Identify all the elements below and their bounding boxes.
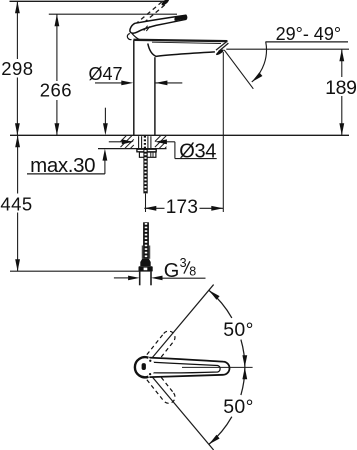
dimension 173 (spout projection) with arrows and label [144, 207, 164, 209]
hose collar taper [140, 259, 150, 267]
spout tip extension line to 173 dimension [222, 52, 224, 212]
swing angle arc with end arrowheads [209, 290, 232, 318]
mounting nut [139, 152, 156, 157]
lever raised position dashed edge 1 [138, 4, 166, 28]
arc centre-line arrowhead upper [242, 355, 247, 367]
svg-text:173: 173 [166, 197, 199, 218]
dimension 445 (hose length below deck) with arrows and label [17, 135, 19, 193]
stud centre line to 173 dimension [145, 193, 147, 212]
svg-text:max.30: max.30 [30, 154, 95, 177]
dimension max.30 (deck thickness) with arrows and label [104, 108, 106, 124]
faucet spout inner top line [152, 42, 221, 43]
shank tube wall left (inner) [141, 136, 143, 148]
pivot head dot lower [149, 373, 151, 375]
reference line top of lever (266 datum) [49, 13, 177, 15]
svg-text:3: 3 [180, 256, 187, 270]
shank tube wall right (outer) [150, 136, 152, 148]
countertop section hatching right of hole [155, 136, 161, 142]
cartridge dome right edge [132, 34, 139, 40]
pivot head slot marker [142, 363, 146, 370]
reference line top of raised lever (298 datum) [10, 0, 165, 2]
lever axis centre line [182, 366, 253, 368]
countertop bottom surface line [98, 148, 167, 150]
svg-text:266: 266 [40, 79, 72, 100]
mounting washer plate [137, 149, 156, 152]
dimension diameter 47 (body) with arrows and label [95, 82, 122, 84]
flexible hose threaded end [143, 222, 149, 258]
pivot head dot upper [149, 360, 151, 362]
svg-text:G: G [164, 260, 180, 282]
lever raised position (top view, dashed) upper [147, 329, 178, 363]
svg-text:29°- 49°: 29°- 49° [276, 24, 341, 44]
dimension diameter 34 (deck hole) with arrows, leader and label [109, 141, 122, 143]
svg-text:50°: 50° [223, 396, 254, 418]
faucet spout top edge [133, 40, 227, 41]
lever crease mark 2 [146, 26, 150, 31]
dimension 189 (spout height) with arrows and label [341, 49, 343, 77]
faucet spout underside curve [148, 44, 215, 57]
spout angle arc with arrowhead [252, 42, 267, 82]
hose tube right wall [150, 272, 152, 286]
svg-text:445: 445 [0, 194, 32, 215]
swing limit line lower 50 deg [150, 374, 214, 450]
lever raised position (top view, dashed) lower [147, 372, 178, 406]
svg-text:298: 298 [1, 58, 33, 79]
hose connection flange nut [139, 266, 153, 271]
lever raised position dashed edge 2 [135, 1, 163, 24]
aerator outlet at spout tip [215, 49, 224, 56]
shank tube wall right (inner) [147, 136, 149, 148]
lever handle (closed position) [130, 15, 187, 33]
thread size label G 3/8 with arrows [114, 277, 128, 279]
threaded stud in deck hole [144, 136, 146, 149]
29-49 degree label underline [265, 41, 348, 43]
faucet spout end face outer line [216, 41, 227, 50]
svg-text:Ø34: Ø34 [179, 140, 216, 162]
threaded mounting stud (upper) [143, 149, 147, 193]
dimension 266 (lever height) with arrows and label [56, 14, 58, 81]
top view lever body outline [149, 358, 229, 378]
svg-text:50°: 50° [223, 319, 254, 341]
spout angle leader line [224, 50, 253, 89]
countertop section hatching left of hole [121, 136, 127, 142]
faucet body column left edge [133, 40, 135, 135]
lever crease mark 1 [144, 26, 148, 31]
shank tube wall left (outer) [138, 136, 140, 148]
dimension 298 (overall height) with arrows and label [16, 1, 18, 59]
hose tube left wall [139, 272, 141, 286]
swing limit line upper 50 deg [150, 285, 214, 361]
arc centre-line arrowhead lower [242, 367, 247, 379]
top view lever inner face [150, 362, 220, 373]
svg-text:8: 8 [189, 264, 196, 278]
svg-text:189: 189 [325, 77, 357, 99]
svg-text:Ø47: Ø47 [89, 64, 123, 84]
hose end reference line (445 datum) [10, 270, 141, 272]
top view lever pivot head [135, 357, 155, 377]
spout outlet level line (189 datum) [226, 48, 349, 50]
lever raised position tip [161, 0, 170, 7]
faucet body column right edge [154, 57, 156, 135]
faucet spout end face inner line [218, 43, 228, 52]
cartridge dome front bump [127, 34, 131, 40]
countertop top surface line [10, 134, 349, 136]
lever handle dark tip [174, 15, 186, 21]
